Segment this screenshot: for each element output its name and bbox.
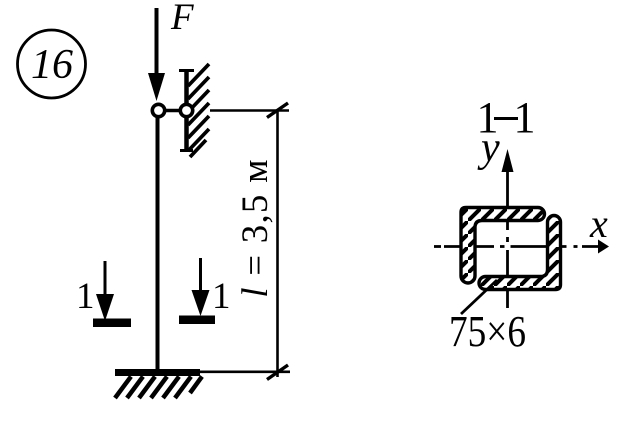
svg-text:y: y xyxy=(477,125,500,171)
svg-text:75×6: 75×6 xyxy=(449,307,526,356)
svg-text:F: F xyxy=(170,0,194,38)
svg-text:1: 1 xyxy=(76,276,95,317)
svg-text:16: 16 xyxy=(31,42,73,88)
svg-text:1: 1 xyxy=(212,276,231,317)
svg-text:l = 3,5 м: l = 3,5 м xyxy=(235,158,276,297)
svg-text:x: x xyxy=(589,201,608,246)
